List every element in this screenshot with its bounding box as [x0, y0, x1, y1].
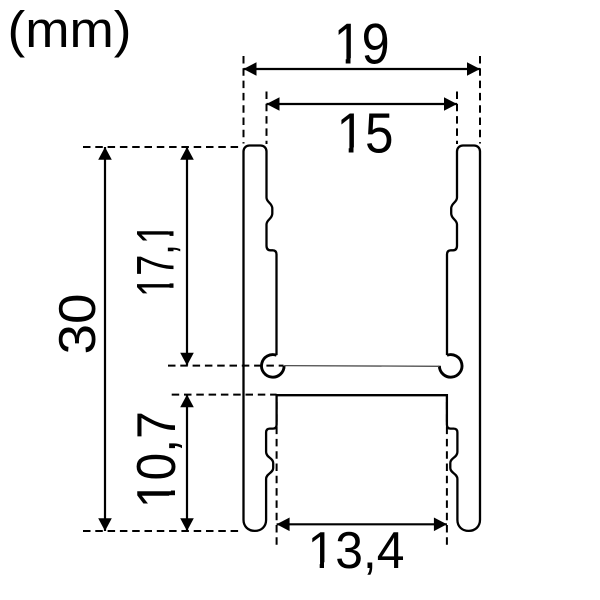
extension dashed line bottom horizontal — [83, 530, 240, 532]
extension dashed line vertical left inner (15) — [266, 92, 268, 145]
dimension 30 bottom arrowhead — [98, 518, 112, 531]
dimension 19 right arrowhead — [467, 62, 480, 76]
extension dashed line top horizontal — [83, 146, 242, 148]
svg-text:15: 15 — [337, 102, 394, 165]
dimension 17,1 top arrowhead — [180, 147, 194, 160]
right screw-boss circle — [439, 355, 462, 378]
thin seat line between bosses — [284, 365, 439, 368]
dimension 13,4 right arrowhead — [434, 518, 447, 532]
svg-text:(mm): (mm) — [8, 1, 132, 58]
dimension 13,4 line — [277, 523, 447, 525]
extension dashed line vertical bottom right (13,4) — [446, 402, 448, 546]
extension dashed line mid horizontal (boss centre) — [168, 365, 284, 367]
dimension 15 left arrowhead — [267, 97, 280, 111]
svg-text:10,7: 10,7 — [125, 411, 187, 508]
extension dashed line vertical left outer (19) — [243, 56, 245, 144]
dimension 19 line — [244, 68, 481, 70]
dimension 15 right arrowhead — [444, 97, 457, 111]
svg-text:30: 30 — [49, 294, 107, 355]
dimension 10,7 line — [186, 395, 188, 532]
dimension 30 top arrowhead — [98, 147, 112, 160]
extension dashed line vertical right outer (19) — [479, 56, 481, 144]
profile outline (aluminium extrusion cross-section) — [244, 146, 481, 531]
dimension 15 line — [267, 103, 458, 105]
dimension 13,4 left arrowhead — [277, 518, 290, 532]
white covers removing serif feet of digit 1 glyphs — [168, 58, 364, 569]
extension dashed line lower horizontal (channel top) — [172, 394, 277, 396]
dimension 17,1 line — [186, 147, 188, 366]
dimension 30 line — [104, 147, 106, 531]
dimension 10,7 bottom arrowhead — [180, 518, 194, 531]
extension dashed line vertical right inner (15) — [456, 92, 458, 145]
dimension 19 left arrowhead — [244, 62, 257, 76]
svg-text:17,1: 17,1 — [127, 223, 186, 297]
extension dashed line vertical bottom left (13,4) — [276, 402, 278, 546]
left screw-boss circle — [262, 355, 285, 378]
svg-text:13,4: 13,4 — [308, 522, 405, 580]
svg-text:19: 19 — [334, 13, 390, 77]
dimension 17,1 bottom arrowhead — [180, 353, 194, 366]
dimension 10,7 top arrowhead — [180, 395, 194, 408]
